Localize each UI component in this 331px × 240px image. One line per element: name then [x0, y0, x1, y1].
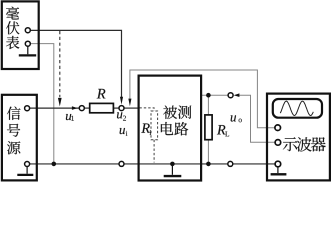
terminal node signal source output +	[25, 106, 30, 111]
arrowhead pointing left at uo terminal	[234, 93, 240, 97]
wire from millivoltmeter terminal 2 down to ground bus	[30, 44, 54, 164]
terminal node bus left	[119, 161, 124, 166]
resistor R	[90, 103, 114, 112]
wire from uo arrow to oscilloscope CH2	[239, 95, 276, 142]
arrowhead of dashed probe at u1	[58, 98, 62, 107]
wire u1: signal source to resistor R	[30, 107, 80, 109]
wire resistor R left terminal	[84, 107, 89, 109]
wire RL bottom to ground bus	[207, 140, 209, 164]
wire u2 node to DUT input	[124, 107, 139, 109]
label ui	[120, 128, 125, 134]
dashed wire from Ri bottom to ground bus	[153, 140, 155, 163]
terminal node uo sense	[228, 93, 233, 98]
wire resistor R right terminal to u2 node	[113, 107, 119, 109]
label Ri	[141, 124, 150, 133]
label R	[97, 89, 106, 98]
terminal node R left	[79, 106, 84, 111]
terminal node bus right	[228, 161, 233, 166]
label 信号源 (signal source)	[7, 106, 21, 154]
dashed wire from DUT input to Ri	[139, 108, 154, 111]
wire DUT output to uo terminal	[202, 94, 229, 96]
junction DUT internal ground	[170, 162, 175, 167]
sine wave on screen	[280, 101, 313, 115]
millivoltmeter box	[2, 1, 39, 69]
wire from node ui up over DUT to oscilloscope CH1	[130, 70, 275, 128]
junction mv ground to bus	[52, 162, 57, 167]
wire millivoltmeter terminal 1 top rail to u2 drop	[30, 30, 122, 98]
arrowhead down at u2 node	[120, 97, 123, 105]
junction RL bottom	[206, 162, 211, 167]
label 示波器 (oscilloscope)	[283, 137, 326, 151]
current arrow on u1 wire	[72, 106, 78, 110]
terminal node oscilloscope CH1	[275, 125, 281, 131]
label u2	[117, 112, 122, 118]
wire output node down to RL top	[207, 95, 209, 115]
ground symbol inside oscilloscope	[271, 167, 287, 174]
label 毫伏表 (millivoltmeter)	[6, 7, 19, 49]
ground symbol inside signal source	[17, 167, 33, 175]
terminal node millivoltmeter input +	[25, 28, 30, 33]
ground bus wire: to oscilloscope ground terminal	[233, 163, 275, 165]
terminal node u2 / ui input	[119, 106, 124, 111]
ground symbol inside DUT on bus	[164, 166, 182, 176]
oscilloscope box	[267, 94, 330, 181]
terminal node oscilloscope CH2	[275, 140, 281, 146]
label u1	[66, 114, 71, 120]
resistor RL (load)	[205, 115, 212, 140]
terminal node signal source output -	[25, 162, 30, 167]
oscilloscope screen	[273, 99, 322, 118]
terminal node oscilloscope ground	[275, 161, 281, 167]
dashed probe line from top rail down to u1 node	[59, 31, 61, 97]
label RL	[217, 125, 226, 134]
label 电路	[161, 122, 188, 135]
label uo	[231, 115, 236, 121]
ground bus wire: source to left bus terminal	[30, 163, 119, 165]
ground symbol inside millivoltmeter	[19, 46, 36, 55]
junction output node	[206, 93, 211, 98]
resistor Ri (dashed, internal input resistance)	[151, 111, 158, 140]
terminal node millivoltmeter input -	[25, 41, 30, 46]
ground bus wire: through DUT to right bus terminal	[124, 163, 228, 165]
DUT box 被测电路 (circuit under test)	[139, 76, 202, 181]
arrowhead down at ui node (from scope CH1 wire)	[128, 99, 131, 107]
label 被测	[163, 106, 191, 119]
signal source box	[2, 95, 37, 181]
